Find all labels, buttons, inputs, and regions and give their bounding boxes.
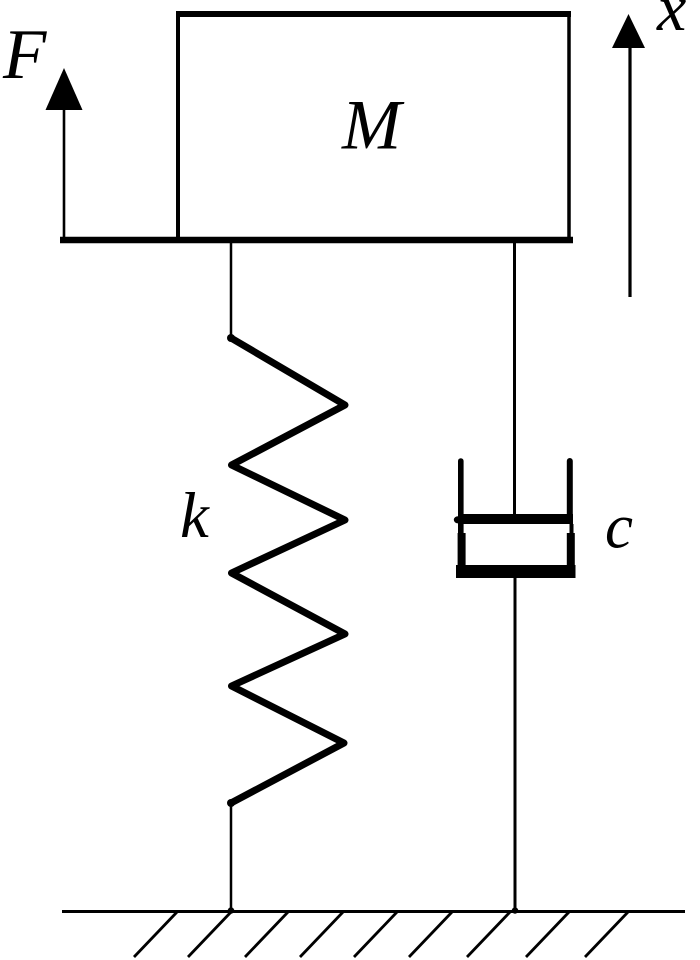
svg-text:x: x bbox=[656, 0, 686, 45]
svg-text:F: F bbox=[2, 16, 47, 94]
svg-text:k: k bbox=[180, 480, 210, 552]
svg-text:c: c bbox=[605, 492, 633, 562]
svg-text:M: M bbox=[341, 87, 405, 165]
